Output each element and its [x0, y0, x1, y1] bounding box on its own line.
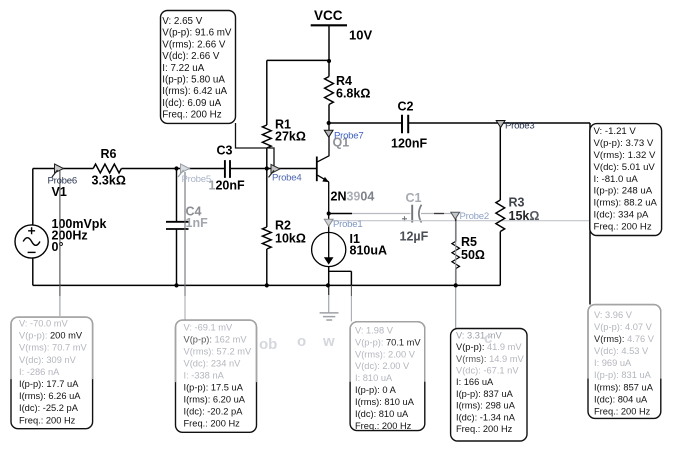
- node C4/input: [174, 166, 178, 170]
- resistor R3: [496, 200, 505, 232]
- svg-text:I(p-p): 17.7 uA: I(p-p): 17.7 uA: [19, 379, 79, 389]
- svg-text:V: 2.65 V: V: 2.65 V: [162, 16, 202, 27]
- svg-text:V: 3.31 mV: V: 3.31 mV: [456, 330, 502, 340]
- svg-text:I(dc): 804 uA: I(dc): 804 uA: [594, 394, 648, 404]
- wire ground rail: [33, 284, 501, 286]
- svg-text:V: 3.96 V: V: 3.96 V: [594, 310, 633, 320]
- svg-text:Probe6: Probe6: [48, 176, 77, 187]
- probe Probe5: [178, 164, 211, 185]
- svg-text:V: -1.21 V: V: -1.21 V: [594, 126, 637, 137]
- current source I1: [312, 214, 346, 267]
- probe Probe6: [48, 164, 77, 187]
- svg-text:Probe1: Probe1: [333, 219, 362, 230]
- capacitor C3: [225, 160, 230, 178]
- svg-text:I(dc): 334 pA: I(dc): 334 pA: [594, 209, 650, 220]
- svg-text:I(p-p): 831 uA: I(p-p): 831 uA: [594, 370, 652, 380]
- node emitter/C1/I1: [327, 211, 331, 215]
- svg-text:V(rms): 70.7 mV: V(rms): 70.7 mV: [19, 343, 87, 353]
- resistor R6: [93, 164, 121, 173]
- svg-text:V(p-p): 91.6 mV: V(p-p): 91.6 mV: [162, 28, 232, 39]
- svg-text:V(rms): 1.32 V: V(rms): 1.32 V: [594, 150, 656, 161]
- svg-text:120nF: 120nF: [209, 179, 245, 193]
- svg-text:o: o: [297, 333, 306, 350]
- node collector/C2: [327, 121, 331, 125]
- probe Probe2: [451, 211, 489, 222]
- svg-text:12µF: 12µF: [400, 230, 429, 244]
- node R2/rail: [265, 283, 269, 287]
- svg-text:Freq.: 200 Hz: Freq.: 200 Hz: [162, 110, 221, 121]
- annotation probe6 box: [11, 317, 93, 429]
- svg-text:V(p-p): 4.07 V: V(p-p): 4.07 V: [594, 322, 653, 332]
- wire emitter to C1: [329, 213, 352, 215]
- svg-text:120nF: 120nF: [391, 137, 427, 151]
- svg-text:I(dc): 6.09 uA: I(dc): 6.09 uA: [162, 98, 221, 109]
- svg-text:I(p-p): 5.80 uA: I(p-p): 5.80 uA: [162, 75, 225, 86]
- svg-text:3.3kΩ: 3.3kΩ: [92, 174, 126, 188]
- svg-text:1nF: 1nF: [186, 216, 209, 230]
- svg-text:I(p-p): 837 uA: I(p-p): 837 uA: [456, 389, 514, 399]
- wire input node A: V1 top to R6 to C3 to base: [33, 168, 317, 170]
- svg-text:I(rms): 857 uA: I(rms): 857 uA: [594, 382, 654, 392]
- svg-text:Freq.: 200 Hz: Freq.: 200 Hz: [594, 406, 651, 416]
- svg-text:I(rms): 6.26 uA: I(rms): 6.26 uA: [19, 391, 81, 401]
- capacitor C4: [166, 222, 189, 229]
- capacitor C1 (polarized): [411, 205, 413, 223]
- svg-text:V: 1.98 V: V: 1.98 V: [355, 325, 394, 335]
- node C4/rail: [174, 283, 178, 287]
- svg-text:V(dc): 4.53 V: V(dc): 4.53 V: [594, 346, 649, 356]
- svg-text:R2: R2: [275, 219, 291, 233]
- resistor R4: [325, 77, 334, 105]
- svg-text:R3: R3: [509, 196, 525, 210]
- wire R1/R2 bias branch: [266, 60, 268, 285]
- svg-text:Freq.: 200 Hz: Freq.: 200 Hz: [19, 415, 76, 425]
- wire C4 branch: [176, 169, 178, 286]
- svg-text:I: 810 uA: I: 810 uA: [355, 373, 393, 383]
- annotation probe1 box: [350, 322, 425, 431]
- node base/R1/R2: [265, 166, 269, 170]
- callout line top box to node: [236, 123, 275, 166]
- svg-text:VCC: VCC: [314, 8, 343, 23]
- ground: [328, 285, 330, 295]
- svg-text:I: -286 nA: I: -286 nA: [19, 367, 60, 377]
- svg-text:27kΩ: 27kΩ: [275, 130, 306, 144]
- svg-text:V(dc): 2.66 V: V(dc): 2.66 V: [162, 51, 220, 62]
- svg-text:6.8kΩ: 6.8kΩ: [336, 87, 370, 101]
- wire R3 branch: [499, 123, 501, 285]
- svg-text:c: c: [484, 330, 492, 347]
- svg-text:50Ω: 50Ω: [461, 248, 485, 262]
- svg-text:V(rms): 14.9 mV: V(rms): 14.9 mV: [456, 354, 524, 364]
- annotation right probe box: [590, 124, 662, 236]
- svg-text:Probe4: Probe4: [272, 173, 302, 184]
- callout line probe6 to box: [59, 171, 61, 296]
- svg-text:15kΩ: 15kΩ: [509, 209, 540, 223]
- svg-text:I(rms): 6.20 uA: I(rms): 6.20 uA: [184, 394, 246, 404]
- wire output right drop: [589, 123, 591, 305]
- svg-text:I: 969 uA: I: 969 uA: [594, 358, 632, 368]
- svg-text:ob: ob: [259, 336, 277, 353]
- svg-text:Freq.: 200 Hz: Freq.: 200 Hz: [456, 424, 513, 434]
- svg-text:C1: C1: [406, 191, 422, 205]
- AC source V1: [15, 225, 48, 258]
- capacitor C2: [402, 115, 408, 134]
- svg-text:V(p-p): 3.73 V: V(p-p): 3.73 V: [594, 138, 654, 149]
- svg-text:I(rms): 298 uA: I(rms): 298 uA: [456, 401, 516, 411]
- callout line probe2 to box: [455, 221, 457, 329]
- annotation probe5 box: [176, 320, 257, 432]
- svg-text:V(dc): 5.01 uV: V(dc): 5.01 uV: [594, 162, 656, 173]
- svg-text:Probe7: Probe7: [334, 131, 363, 142]
- wire V1 leads: [32, 169, 34, 286]
- svg-text:C2: C2: [398, 100, 414, 114]
- svg-text:I(p-p): 248 uA: I(p-p): 248 uA: [594, 186, 653, 197]
- svg-text:Freq.: 200 Hz: Freq.: 200 Hz: [355, 421, 412, 431]
- svg-text:V(rms): 2.00 V: V(rms): 2.00 V: [355, 349, 416, 359]
- svg-text:I(dc): -20.2 pA: I(dc): -20.2 pA: [184, 406, 244, 416]
- svg-text:V(rms): 2.66 V: V(rms): 2.66 V: [162, 39, 226, 50]
- svg-text:V(p-p): 70.1 mV: V(p-p): 70.1 mV: [355, 337, 421, 347]
- callout line probe5 to box: [184, 172, 186, 296]
- svg-text:I(p-p): 17.5 uA: I(p-p): 17.5 uA: [184, 382, 244, 392]
- svg-text:I(p-p): 0 A: I(p-p): 0 A: [355, 385, 397, 395]
- svg-text:I(dc): 810 uA: I(dc): 810 uA: [355, 409, 409, 419]
- svg-text:V(dc): -67.1 nV: V(dc): -67.1 nV: [456, 366, 519, 376]
- svg-text:10kΩ: 10kΩ: [275, 232, 306, 246]
- wire (faded watermark edge): [327, 220, 590, 222]
- svg-text:V(p-p): 162 mV: V(p-p): 162 mV: [184, 334, 248, 344]
- svg-text:I(rms): 6.42 uA: I(rms): 6.42 uA: [162, 86, 227, 97]
- svg-text:Probe2: Probe2: [460, 211, 489, 222]
- probe Probe7: [324, 130, 363, 141]
- watermark remnants: [259, 330, 492, 353]
- resistor R2: [262, 227, 271, 249]
- svg-text:w: w: [322, 333, 335, 350]
- svg-text:Freq.: 200 Hz: Freq.: 200 Hz: [594, 221, 652, 232]
- svg-text:I: -81.0 uA: I: -81.0 uA: [594, 174, 639, 185]
- transistor Q1: [317, 124, 329, 214]
- node VCC/R1: [327, 59, 331, 63]
- svg-text:V(p-p): 200 mV: V(p-p): 200 mV: [19, 331, 83, 341]
- wire collector node to C2 to output node: [329, 122, 590, 124]
- node R5/rail: [454, 283, 458, 287]
- svg-text:Probe5: Probe5: [182, 174, 211, 185]
- node I1/rail: [326, 283, 330, 287]
- svg-text:10V: 10V: [349, 28, 372, 43]
- svg-text:V(rms): 4.76 V: V(rms): 4.76 V: [594, 334, 655, 344]
- svg-text:V: -69.1 mV: V: -69.1 mV: [184, 322, 234, 332]
- svg-text:Probe3: Probe3: [505, 121, 534, 132]
- svg-text:R6: R6: [101, 147, 117, 161]
- svg-text:I: -338 nA: I: -338 nA: [184, 370, 225, 380]
- svg-text:810uA: 810uA: [350, 244, 388, 258]
- svg-text:Freq.: 200 Hz: Freq.: 200 Hz: [184, 418, 241, 428]
- svg-text:I: 166 uA: I: 166 uA: [456, 377, 494, 387]
- svg-text:2N3904: 2N3904: [331, 190, 375, 204]
- svg-text:R5: R5: [461, 235, 477, 249]
- wire VCC vertical: [328, 25, 330, 123]
- VCC power symbol: [311, 8, 373, 43]
- svg-text:V(rms): 57.2 mV: V(rms): 57.2 mV: [184, 346, 252, 356]
- annotation top probe box: [161, 11, 236, 124]
- svg-text:V(dc): 309 nV: V(dc): 309 nV: [19, 355, 77, 365]
- svg-text:C3: C3: [217, 144, 233, 158]
- probe Probe1: [324, 219, 362, 230]
- node output/R3: [498, 121, 502, 125]
- svg-text:0°: 0°: [52, 240, 64, 254]
- svg-text:I(rms): 810 uA: I(rms): 810 uA: [355, 397, 415, 407]
- resistor R1: [262, 125, 271, 148]
- resistor R5: [455, 214, 457, 286]
- svg-text:V(dc): 2.00 V: V(dc): 2.00 V: [355, 361, 410, 371]
- probe Probe4: [269, 164, 303, 183]
- svg-text:V(dc): 234 nV: V(dc): 234 nV: [184, 358, 242, 368]
- annotation probe2 box: [451, 329, 527, 442]
- svg-text:I(rms): 88.2 uA: I(rms): 88.2 uA: [594, 198, 658, 209]
- svg-text:V1: V1: [52, 185, 67, 199]
- wire R1 top to VCC: [267, 59, 329, 61]
- svg-text:I: 7.22 uA: I: 7.22 uA: [162, 63, 204, 74]
- svg-text:I(dc): -1.34 nA: I(dc): -1.34 nA: [456, 412, 516, 422]
- annotation probe3 box: [588, 305, 661, 419]
- svg-text:I(dc): -25.2 pA: I(dc): -25.2 pA: [19, 403, 79, 413]
- probe Probe3: [496, 121, 534, 132]
- callout line probe1 to box: [350, 285, 352, 296]
- svg-text:V: -70.0 mV: V: -70.0 mV: [19, 318, 69, 328]
